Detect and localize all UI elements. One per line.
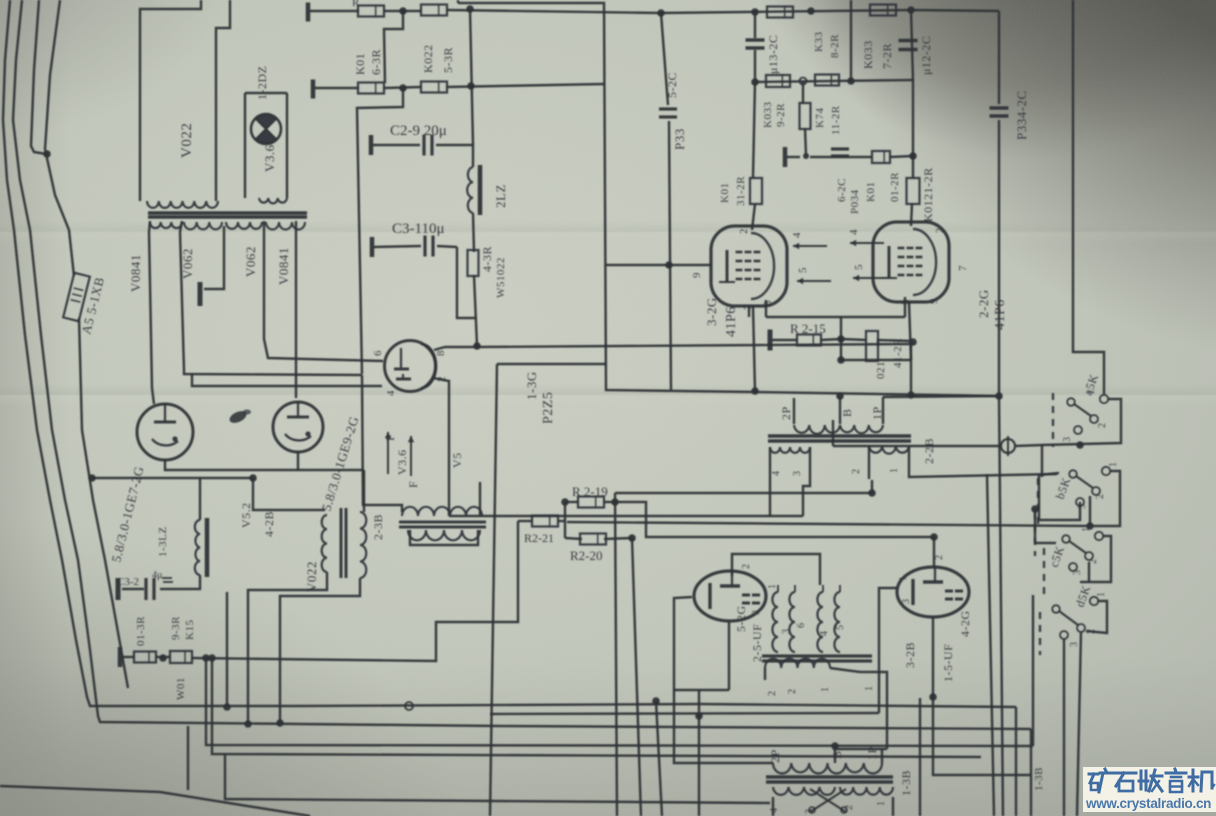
svg-text:R 2-15: R 2-15 bbox=[790, 321, 826, 336]
svg-text:1-3G: 1-3G bbox=[524, 371, 539, 400]
svg-text:2: 2 bbox=[934, 555, 945, 561]
svg-text:5-2G: 5-2G bbox=[734, 605, 748, 632]
svg-text:1P: 1P bbox=[865, 746, 879, 760]
svg-text:1: 1 bbox=[864, 686, 875, 692]
svg-text:V062: V062 bbox=[180, 248, 195, 279]
svg-text:K022: K022 bbox=[421, 44, 435, 73]
svg-text:W51022: W51022 bbox=[495, 257, 507, 298]
svg-text:P33: P33 bbox=[672, 128, 687, 150]
svg-text:01-3R: 01-3R bbox=[135, 616, 147, 646]
svg-text:4: 4 bbox=[769, 808, 780, 814]
svg-text:11-2R: 11-2R bbox=[830, 105, 842, 135]
svg-text:B: B bbox=[840, 408, 854, 417]
svg-text:2: 2 bbox=[1097, 423, 1108, 429]
svg-text:2-2G: 2-2G bbox=[976, 289, 991, 318]
svg-text:μ13-2C: μ13-2C bbox=[766, 35, 780, 74]
svg-text:K74: K74 bbox=[814, 108, 826, 128]
svg-text:V022: V022 bbox=[304, 561, 319, 592]
svg-text:1: 1 bbox=[889, 468, 900, 474]
svg-text:4: 4 bbox=[848, 229, 860, 235]
svg-text:7-2R: 7-2R bbox=[880, 43, 894, 69]
svg-text:2-5-UF: 2-5-UF bbox=[750, 624, 764, 662]
svg-text:6-2C: 6-2C bbox=[836, 178, 848, 202]
svg-text:μ12-2C: μ12-2C bbox=[919, 36, 933, 75]
svg-text:8: 8 bbox=[435, 350, 447, 356]
svg-text:K01: K01 bbox=[865, 182, 877, 202]
svg-text:P2Z5: P2Z5 bbox=[541, 392, 556, 424]
svg-text:4: 4 bbox=[385, 390, 397, 396]
svg-text:3: 3 bbox=[792, 471, 803, 477]
svg-text:1: 1 bbox=[767, 584, 778, 590]
svg-text:3: 3 bbox=[781, 629, 792, 635]
svg-text:6-3R: 6-3R bbox=[369, 49, 383, 75]
svg-text:1: 1 bbox=[1108, 462, 1119, 468]
svg-text:2: 2 bbox=[738, 228, 750, 234]
svg-text:K033: K033 bbox=[762, 102, 774, 128]
svg-text:K033: K033 bbox=[861, 40, 875, 69]
svg-text:K01: K01 bbox=[719, 183, 731, 203]
svg-text:8-2R: 8-2R bbox=[829, 34, 841, 58]
svg-text:1: 1 bbox=[820, 687, 831, 693]
svg-text:R 2-19: R 2-19 bbox=[572, 484, 608, 499]
svg-text:6: 6 bbox=[372, 350, 384, 356]
svg-text:5: 5 bbox=[835, 625, 846, 631]
svg-text:1P: 1P bbox=[870, 406, 884, 420]
svg-text:5: 5 bbox=[853, 264, 865, 270]
svg-text:4μ: 4μ bbox=[152, 570, 162, 581]
svg-text:V3.6: V3.6 bbox=[395, 449, 409, 475]
svg-text:9: 9 bbox=[928, 298, 940, 304]
svg-text:C3-2: C3-2 bbox=[117, 576, 139, 588]
svg-text:3: 3 bbox=[1077, 504, 1088, 510]
svg-text:3: 3 bbox=[1062, 437, 1073, 443]
svg-text:2: 2 bbox=[1086, 629, 1097, 635]
svg-text:V0841: V0841 bbox=[276, 247, 291, 285]
svg-text:C2-9 20μ: C2-9 20μ bbox=[390, 123, 447, 139]
svg-text:4-3R: 4-3R bbox=[480, 246, 494, 272]
svg-text:2P: 2P bbox=[768, 749, 782, 763]
svg-text:1: 1 bbox=[876, 801, 887, 807]
svg-text:3: 3 bbox=[1069, 642, 1080, 648]
svg-text:2: 2 bbox=[1095, 494, 1106, 500]
svg-text:2: 2 bbox=[767, 691, 778, 697]
svg-text:2LZ: 2LZ bbox=[493, 184, 508, 208]
svg-text:3: 3 bbox=[901, 599, 912, 605]
svg-text:K01: K01 bbox=[353, 53, 367, 75]
svg-text:2: 2 bbox=[851, 469, 862, 475]
svg-text:V022: V022 bbox=[179, 123, 195, 158]
svg-text:K15: K15 bbox=[184, 620, 196, 640]
svg-text:7: 7 bbox=[957, 265, 969, 271]
svg-text:1-3B: 1-3B bbox=[1033, 767, 1045, 791]
svg-text:1-3LZ: 1-3LZ bbox=[157, 526, 169, 557]
svg-text:K33: K33 bbox=[813, 32, 825, 52]
svg-text:1-3B: 1-3B bbox=[899, 770, 913, 796]
svg-text:K0121-2R: K0121-2R bbox=[921, 167, 935, 222]
svg-text:5: 5 bbox=[797, 267, 809, 273]
svg-text:2-3B: 2-3B bbox=[371, 514, 385, 540]
svg-text:3-2G: 3-2G bbox=[704, 297, 719, 326]
svg-text:2P: 2P bbox=[779, 406, 793, 420]
svg-text:41P6: 41P6 bbox=[724, 306, 739, 337]
svg-text:6: 6 bbox=[796, 623, 807, 629]
svg-text:9: 9 bbox=[691, 272, 703, 278]
svg-text:021: 021 bbox=[875, 361, 887, 379]
svg-text:4: 4 bbox=[771, 471, 782, 477]
svg-text:2-2B: 2-2B bbox=[922, 438, 936, 464]
svg-text:www.crystalradio.cn: www.crystalradio.cn bbox=[1085, 796, 1211, 811]
svg-text:V3.6: V3.6 bbox=[262, 144, 277, 172]
svg-text:31-2R: 31-2R bbox=[735, 176, 747, 206]
svg-text:9-3R: 9-3R bbox=[170, 616, 182, 640]
svg-text:1: 1 bbox=[1081, 527, 1092, 533]
svg-text:3: 3 bbox=[751, 610, 762, 616]
svg-text:B: B bbox=[830, 750, 844, 759]
svg-text:P034: P034 bbox=[849, 189, 861, 214]
svg-text:5-3R: 5-3R bbox=[441, 47, 455, 73]
svg-text:V0841: V0841 bbox=[128, 254, 143, 292]
svg-text:P334-2C: P334-2C bbox=[1014, 90, 1029, 140]
svg-text:2: 2 bbox=[787, 689, 798, 695]
svg-text:41P6: 41P6 bbox=[993, 299, 1008, 330]
svg-text:R2-21: R2-21 bbox=[524, 531, 554, 545]
svg-text:3: 3 bbox=[804, 809, 815, 815]
svg-text:4: 4 bbox=[819, 631, 830, 637]
svg-text:V5: V5 bbox=[450, 452, 464, 468]
svg-text:2: 2 bbox=[844, 805, 855, 811]
svg-text:3: 3 bbox=[1072, 570, 1083, 576]
svg-text:3: 3 bbox=[762, 300, 774, 306]
svg-text:2: 2 bbox=[741, 564, 752, 570]
svg-text:3-2B: 3-2B bbox=[903, 642, 917, 668]
svg-text:5-2C: 5-2C bbox=[665, 72, 679, 98]
svg-text:01-2R: 01-2R bbox=[889, 172, 901, 202]
svg-text:4-2B: 4-2B bbox=[262, 511, 276, 537]
svg-text:4-2G: 4-2G bbox=[958, 610, 972, 637]
svg-text:W01: W01 bbox=[175, 677, 187, 700]
svg-text:1-5-UF: 1-5-UF bbox=[941, 644, 955, 682]
svg-text:V062: V062 bbox=[243, 246, 258, 277]
svg-text:4: 4 bbox=[791, 232, 803, 238]
svg-text:1: 1 bbox=[898, 576, 909, 582]
svg-text:1-2DZ: 1-2DZ bbox=[255, 66, 269, 101]
svg-text:1: 1 bbox=[1096, 592, 1107, 598]
svg-text:R2-20: R2-20 bbox=[570, 548, 603, 563]
svg-text:F: F bbox=[383, 434, 397, 441]
svg-text:R: R bbox=[352, 0, 360, 9]
svg-text:V5.2: V5.2 bbox=[239, 502, 253, 528]
svg-text:41-2R: 41-2R bbox=[892, 338, 904, 368]
svg-text:C3-110μ: C3-110μ bbox=[392, 221, 445, 237]
svg-text:9-2R: 9-2R bbox=[775, 103, 787, 127]
svg-text:F: F bbox=[406, 481, 420, 488]
